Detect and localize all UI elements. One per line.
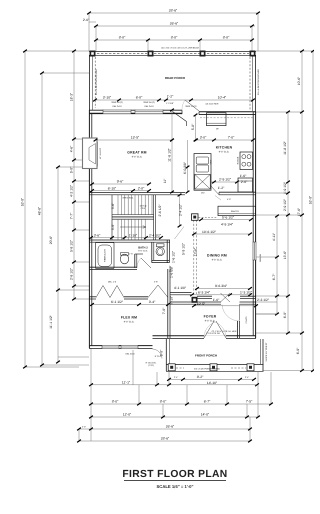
- wall: front porch west edge: [166, 339, 169, 371]
- window rear W1: [103, 110, 131, 114]
- svg-text:SCALE 1/4" = 1'-0": SCALE 1/4" = 1'-0": [157, 484, 194, 489]
- wall: WC east wall (x168): [167, 240, 169, 263]
- wall: rear porch east edge: [250, 55, 256, 112]
- svg-text:4'-9 1/4": 4'-9 1/4": [221, 223, 234, 227]
- svg-text:2'-8": 2'-8": [138, 186, 145, 190]
- pantry cabinet: [218, 206, 256, 215]
- svg-text:8'-8": 8'-8": [119, 36, 126, 40]
- svg-text:6'-10": 6'-10": [108, 186, 117, 190]
- svg-text:1'-9 1/2": 1'-9 1/2": [283, 181, 287, 194]
- svg-text:3'-6": 3'-6": [111, 202, 115, 209]
- svg-text:FOYER: FOYER: [204, 314, 217, 318]
- svg-text:(2) 1 3/4 x 11 7/8 LVL HDR: (2) 1 3/4 x 11 7/8 LVL HDR: [212, 330, 237, 333]
- svg-text:2'-8": 2'-8": [154, 281, 158, 284]
- svg-text:7'-5": 7'-5": [246, 400, 253, 404]
- stair rails center: [112, 215, 154, 220]
- dashed opening: dining west (x195): [194, 220, 197, 294]
- post at dining NW corner: [192, 214, 199, 221]
- svg-text:2'-6 1/2": 2'-6 1/2": [158, 204, 162, 217]
- bath door swing: [137, 258, 151, 268]
- dim 6'-0 3/8" vertical kitchen: [187, 140, 189, 192]
- dim row 8'-0"/8'-0"/6'-7"/7'-5": [91, 403, 271, 405]
- svg-text:2'-4 1/2": 2'-4 1/2": [149, 233, 162, 237]
- svg-text:13'-6": 13'-6": [283, 250, 287, 259]
- chain 11'-8 1/2" etc: [287, 112, 289, 333]
- stair enclosure sides: [112, 195, 156, 240]
- svg-text:(TYP): (TYP): [148, 364, 154, 367]
- sink counter island: [194, 154, 211, 191]
- svg-text:2'-4 1/2": 2'-4 1/2": [179, 203, 183, 216]
- svg-text:9'-0" CLG.: 9'-0" CLG.: [138, 250, 148, 253]
- wall: WC south wall (y261.5): [152, 260, 170, 262]
- wall: right exterior wall: [253, 112, 255, 338]
- wall: hall south / flex north wall (y297): [89, 293, 192, 299]
- svg-text:9'-6 3/4": 9'-6 3/4": [215, 284, 228, 288]
- svg-text:9'-0" CLG.: 9'-0" CLG.: [205, 319, 216, 322]
- dim row 28'-6" bottom: [79, 440, 250, 442]
- svg-text:6'-1 1/2": 6'-1 1/2": [111, 300, 124, 304]
- toilet: [156, 244, 164, 256]
- svg-text:1'-3 1/2": 1'-3 1/2": [240, 291, 253, 295]
- svg-text:7'-10": 7'-10": [170, 295, 174, 304]
- cased opening swing X (dining to foyer): [221, 293, 231, 302]
- dim row 12'-0"/14'-0": [91, 416, 258, 418]
- chain 4'-11"/6'-7": [276, 216, 278, 314]
- wall: dining south wall (y297): [197, 296, 256, 298]
- corner pantry diagonal + door swing: [173, 112, 187, 127]
- svg-text:7 3/4": 7 3/4": [140, 207, 146, 210]
- svg-text:3'-0": 3'-0": [200, 136, 207, 140]
- svg-text:(2) 2x10 HDR: (2) 2x10 HDR: [206, 103, 219, 106]
- svg-text:8'-8": 8'-8": [223, 36, 230, 40]
- window flex W1: [102, 345, 119, 349]
- svg-text:2'-9 1/2": 2'-9 1/2": [283, 198, 287, 211]
- svg-text:6'-9": 6'-9": [296, 347, 300, 354]
- svg-text:11'-1 1/2": 11'-1 1/2": [49, 314, 53, 328]
- wall: rear wall of house (great rm segment): [89, 110, 182, 114]
- svg-text:RANGE: RANGE: [236, 156, 239, 164]
- svg-text:4'-11": 4'-11": [272, 232, 276, 241]
- svg-text:2850 SH (2): 2850 SH (2): [111, 101, 123, 104]
- svg-text:2'-9 1/2": 2'-9 1/2": [219, 178, 232, 182]
- svg-text:5'-0": 5'-0": [70, 166, 74, 173]
- svg-text:2'-0": 2'-0": [241, 180, 248, 184]
- svg-text:26'-6": 26'-6": [170, 22, 179, 26]
- leader diagonal WC: [175, 227, 185, 240]
- svg-text:BATH 2: BATH 2: [138, 246, 148, 249]
- svg-text:13'-5": 13'-5": [131, 136, 140, 140]
- svg-text:26'-6": 26'-6": [166, 425, 175, 429]
- svg-text:(2) 1 3/4 x 9 1/2 x 26' LVL FL: (2) 1 3/4 x 9 1/2 x 26' LVL FLUSH BEAM: [161, 47, 199, 50]
- svg-text:FIBERGLASS: FIBERGLASS: [104, 248, 107, 262]
- svg-text:11'-1": 11'-1": [122, 381, 131, 385]
- wall: stair/kitchen south wall (y193): [89, 193, 185, 195]
- wall: foyer north wall (y303): [170, 302, 256, 304]
- svg-text:4'-6": 4'-6": [70, 145, 74, 152]
- svg-text:DBL 2x10: DBL 2x10: [144, 105, 154, 108]
- svg-text:2'-4": 2'-4": [245, 376, 249, 379]
- svg-text:5/4 x 6 DK PORCH BOARD: 5/4 x 6 DK PORCH BOARD: [194, 368, 220, 371]
- svg-text:3'-0": 3'-0": [111, 223, 115, 230]
- pedestal sink: [120, 253, 128, 264]
- stair treads lower flight: [118, 219, 145, 239]
- svg-text:10'-5": 10'-5": [197, 302, 206, 306]
- svg-text:1'-2": 1'-2": [169, 265, 173, 272]
- dim 5'-8" vertical island: [195, 115, 197, 140]
- stoop door arc at flex corner: [153, 349, 163, 359]
- dim row 2'-0"/26'-6": [79, 428, 250, 430]
- svg-text:2850 SH (2): 2850 SH (2): [143, 101, 155, 104]
- svg-text:7'-7": 7'-7": [70, 212, 74, 219]
- svg-text:5/4 x 6 DK PORCH BOARD: 5/4 x 6 DK PORCH BOARD: [95, 69, 98, 95]
- wall: stair bottom / bath north wall (y240): [89, 240, 170, 242]
- svg-text:9'-0" CLG.: 9'-0" CLG.: [219, 151, 230, 154]
- svg-text:DW: DW: [201, 192, 205, 195]
- chain 10'-6"/17'-6"/6'-9": [301, 51, 303, 371]
- svg-text:8'-2": 8'-2": [197, 375, 204, 379]
- wall: rear porch beam (north): [89, 51, 256, 55]
- door swing kitchen-south: [211, 186, 220, 195]
- chain 48'-8": [41, 73, 43, 365]
- porch post SW: [168, 364, 175, 371]
- svg-text:4'-6": 4'-6": [227, 198, 231, 201]
- title FIRST FLOOR PLAN: [122, 469, 227, 489]
- svg-text:20'-6": 20'-6": [49, 235, 53, 244]
- dim 5'-6 1/2" dining top: [201, 219, 251, 221]
- hall door swing: [148, 285, 168, 298]
- svg-text:8'-8": 8'-8": [171, 36, 178, 40]
- dim row porch interior: [95, 99, 253, 101]
- svg-text:PANTRY: PANTRY: [231, 210, 240, 213]
- svg-text:DINING RM: DINING RM: [207, 253, 227, 257]
- pantry leader 4'-6": [215, 196, 221, 201]
- svg-text:8'-0": 8'-0": [112, 400, 119, 404]
- svg-text:13'-6": 13'-6": [193, 247, 197, 256]
- stair direction arrow: [120, 226, 146, 229]
- svg-text:6'-0 3/8": 6'-0 3/8": [183, 161, 187, 174]
- dim row 11'-1"/14'-10": [91, 384, 257, 386]
- svg-text:5'-8": 5'-8": [191, 123, 195, 130]
- svg-text:1'-2": 1'-2": [218, 186, 225, 190]
- wall: rear porch west edge: [89, 55, 95, 110]
- dim 6'-10"/2'-8" stair: [92, 190, 149, 192]
- wall: foyer/house front wall: [153, 336, 257, 339]
- dim 10'-6 1/2" dining: [194, 233, 250, 235]
- dim 2'-0" leader left: [89, 21, 96, 23]
- chain 53'-0": [24, 51, 26, 367]
- svg-text:2'-3 1/2": 2'-3 1/2": [257, 298, 270, 302]
- svg-text:9'-0" CLG.: 9'-0" CLG.: [212, 259, 223, 262]
- dim line 28'-6" top: [89, 12, 258, 14]
- wall: left exterior wall: [89, 110, 91, 348]
- svg-text:FIRST FLOOR PLAN: FIRST FLOOR PLAN: [122, 469, 227, 480]
- svg-text:7'-0": 7'-0": [228, 136, 235, 140]
- wall: front porch east edge: [260, 339, 263, 371]
- stair treads upper flight: [118, 195, 152, 215]
- svg-text:28'-6": 28'-6": [169, 9, 178, 13]
- wall: flex south exterior wall: [89, 346, 153, 349]
- svg-text:7'-0": 7'-0": [162, 307, 166, 314]
- dim 9'-6 3/4" dining bottom: [197, 288, 250, 290]
- svg-text:5'-8 1/2": 5'-8 1/2": [70, 239, 74, 252]
- dim line 26'-6": [96, 25, 255, 27]
- svg-text:1'-2": 1'-2": [167, 95, 174, 99]
- window rear W2: [135, 110, 163, 114]
- extension lines bottom: [90, 348, 92, 441]
- svg-text:14'-10": 14'-10": [207, 381, 218, 385]
- svg-text:53'-0": 53'-0": [309, 195, 313, 204]
- dim 3'-0"/7'-0" kitchen: [196, 139, 253, 141]
- wall: bath/WC divider vertical (x136): [135, 254, 143, 268]
- svg-text:10'-6": 10'-6": [297, 76, 301, 85]
- svg-text:9'-0" CLG.: 9'-0" CLG.: [124, 321, 135, 324]
- porch post S mid: [210, 364, 217, 371]
- svg-text:3'-10": 3'-10": [103, 96, 112, 100]
- wall: bath south wall (y268): [89, 267, 137, 269]
- dim 6'-3 1/4" / 1'-3 1/2": [192, 294, 250, 296]
- window flex W2: [121, 345, 138, 349]
- extension lines right: [256, 50, 313, 52]
- chain 53'-0" right: [312, 51, 314, 371]
- svg-text:6'-7": 6'-7": [204, 400, 211, 404]
- dashed header post to pantry: [199, 216, 218, 218]
- svg-text:1'-6 1/2": 1'-6 1/2": [172, 250, 176, 263]
- svg-text:3'-4": 3'-4": [149, 300, 156, 304]
- svg-text:GREAT RM: GREAT RM: [127, 150, 146, 154]
- svg-text:6'-3 1/4": 6'-3 1/4": [198, 291, 211, 295]
- dim row 2'-4"/8'-2"/2'-4" porch: [169, 378, 254, 380]
- svg-text:3068 1-LITE: 3068 1-LITE: [185, 105, 197, 108]
- wall: foyer west wall (x169): [168, 269, 170, 338]
- extension lines left: [25, 50, 89, 52]
- svg-text:2'-0": 2'-0": [82, 426, 86, 429]
- svg-text:DBL 2x10: DBL 2x10: [112, 105, 122, 108]
- svg-text:2'-4": 2'-4": [174, 376, 178, 379]
- closet bifold doors (hall): [96, 286, 124, 298]
- svg-text:10'-6 1/2": 10'-6 1/2": [202, 230, 217, 234]
- svg-text:SLOPE 1/4" PER FT: SLOPE 1/4" PER FT: [265, 342, 268, 362]
- dim row above bath 3'-6"/5'-10"/2'-4 1/2": [91, 237, 161, 239]
- svg-text:5'-0": 5'-0": [160, 349, 164, 356]
- dim 13'-5" great rm: [96, 139, 173, 141]
- svg-text:6'-0": 6'-0": [283, 311, 287, 318]
- dim 6'-1 1/2"/3'-4" flex: [92, 304, 168, 306]
- svg-text:5'-9 1/2": 5'-9 1/2": [182, 242, 186, 255]
- porch post N mid-right: [200, 51, 206, 57]
- svg-text:SINK: SINK: [210, 159, 213, 164]
- svg-text:18'-3": 18'-3": [70, 92, 74, 101]
- dim line vertical x180 stairs right: [179, 195, 181, 226]
- fridge: [238, 178, 253, 192]
- svg-text:6'-7": 6'-7": [272, 273, 276, 280]
- tub: [96, 243, 115, 269]
- wall: kitchen south wall east segment: [219, 192, 256, 195]
- svg-text:6'-8": 6'-8": [136, 96, 143, 100]
- svg-text:12'-0": 12'-0": [123, 413, 132, 417]
- svg-text:9'-0" CLG.: 9'-0" CLG.: [132, 156, 143, 159]
- door rear (to porch): [182, 100, 199, 111]
- dim line 8'-8" x3: [96, 39, 252, 41]
- svg-text:53'-0": 53'-0": [21, 197, 25, 206]
- dim 9'-6" stair top: [92, 183, 149, 185]
- svg-text:4'-1 1/8": 4'-1 1/8": [174, 286, 187, 290]
- svg-text:5'-6 1/2": 5'-6 1/2": [222, 215, 235, 219]
- svg-text:2'-8 1/2": 2'-8 1/2": [70, 267, 74, 280]
- svg-text:42" GAS FP: 42" GAS FP: [99, 147, 102, 159]
- svg-text:1'-2 5/8": 1'-2 5/8": [166, 102, 174, 105]
- window dining east wall: [253, 242, 257, 260]
- porch post N mid-left: [148, 51, 154, 57]
- svg-text:OPEN RAIL: OPEN RAIL: [122, 197, 134, 200]
- svg-text:2'-0": 2'-0": [83, 18, 90, 22]
- island: [207, 113, 227, 126]
- porch post NW: [90, 51, 96, 57]
- svg-text:DBL 2x10: DBL 2x10: [125, 353, 135, 356]
- svg-text:48'-8": 48'-8": [38, 206, 42, 215]
- range: [240, 152, 253, 170]
- porch post NE: [250, 51, 256, 57]
- svg-text:FRONT PORCH: FRONT PORCH: [195, 353, 217, 357]
- chain 20'-6" / 11'-1 1/2": [57, 167, 59, 362]
- fireplace: [83, 138, 98, 169]
- svg-text:4'-2 1/2": 4'-2 1/2": [70, 184, 74, 197]
- svg-text:1'-6": 1'-6": [240, 174, 247, 178]
- upper cabinets dashed: [200, 117, 253, 119]
- dim 10'-5" foyer top: [194, 305, 256, 307]
- svg-text:1'-10": 1'-10": [129, 233, 138, 237]
- extension lines top: [88, 13, 90, 51]
- svg-text:KITCHEN: KITCHEN: [216, 145, 233, 149]
- dim 2'-9 1/2" / 2'-0" kitchen lower: [211, 181, 237, 183]
- svg-text:5/4 x 6 DK PORCH BOARD: 5/4 x 6 DK PORCH BOARD: [257, 69, 260, 95]
- wall: coats closet west (x238): [237, 321, 239, 338]
- wall: WC west wall (x152.5): [152, 242, 154, 262]
- svg-text:COATS: COATS: [245, 316, 248, 324]
- svg-text:9'-6": 9'-6": [117, 180, 124, 184]
- front door opening: [204, 321, 226, 339]
- svg-text:1'-6": 1'-6": [129, 253, 133, 256]
- wall: rear wall of house (kitchen segment, jogged): [199, 112, 256, 115]
- svg-text:48": 48": [216, 127, 219, 130]
- svg-text:1'-0": 1'-0": [213, 298, 220, 302]
- chain room dims left: [73, 51, 75, 299]
- svg-text:28'-6": 28'-6": [161, 437, 170, 441]
- svg-text:REAR PORCH: REAR PORCH: [165, 76, 185, 80]
- post at foyer NW corner: [192, 297, 198, 303]
- svg-text:DBL. 2-6: DBL. 2-6: [108, 281, 117, 284]
- svg-text:8'-0": 8'-0": [160, 400, 167, 404]
- wall: front porch south edge: [166, 365, 264, 372]
- svg-text:10'-4": 10'-4": [218, 96, 227, 100]
- svg-text:11'-8 1/2": 11'-8 1/2": [283, 140, 287, 154]
- svg-text:11'-8 1/2": 11'-8 1/2": [168, 147, 172, 161]
- svg-text:3'-6": 3'-6": [94, 233, 101, 237]
- svg-text:2850 SH: 2850 SH: [259, 253, 262, 262]
- svg-text:17'-6": 17'-6": [297, 207, 301, 216]
- porch post SE: [247, 364, 254, 371]
- svg-text:FLEX RM: FLEX RM: [121, 315, 137, 319]
- dim 11'-8 1/2" vertical great rm: [171, 110, 173, 192]
- svg-text:14'-0": 14'-0": [201, 413, 210, 417]
- closet door leaf + swing: [222, 305, 240, 322]
